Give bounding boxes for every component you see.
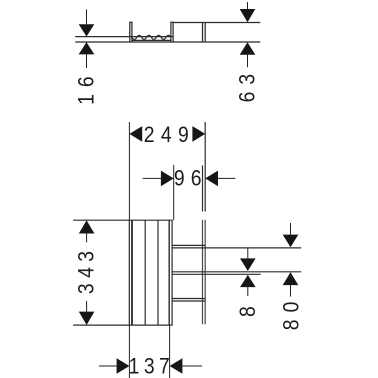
svg-text:63: 63 (236, 67, 260, 103)
svg-text:249: 249 (144, 123, 195, 147)
dimension 63: leader lines (247, 2, 249, 67)
arrowheads (129, 126, 205, 142)
arrowheads (161, 171, 218, 187)
arrowheads (240, 258, 256, 287)
dimension 343: leader lines (86, 233, 88, 311)
top view: mounting plate top edge (75, 36, 173, 38)
svg-text:16: 16 (75, 69, 99, 105)
svg-text:8: 8 (236, 306, 260, 317)
top view: box right edge double line (203, 23, 206, 43)
svg-text:80: 80 (279, 295, 303, 331)
top view: box top line (173, 22, 260, 24)
front view: rung 2 (172, 271, 301, 273)
top view: mounting plate bottom edge (75, 41, 260, 43)
front view: panel top line with 343 extension (73, 219, 172, 221)
arrowheads (283, 235, 299, 286)
dimension 249: leader lines (128, 122, 130, 220)
top view: tray left wall (130, 22, 132, 42)
front view: panel bottom line with 343 extension (73, 324, 172, 326)
svg-text:137: 137 (129, 354, 175, 378)
dimension 80: leader lines (290, 223, 292, 297)
front view: holder bar (203, 220, 206, 324)
top view: tray floor line (132, 39, 171, 41)
arrowheads (240, 9, 256, 55)
svg-text:96: 96 (174, 166, 208, 190)
front view: rung 1 (172, 244, 205, 246)
front view: rung 3 (172, 299, 205, 302)
arrowheads (117, 358, 183, 374)
top view: tray wavy base profile (132, 35, 171, 39)
dimension 137: leader lines (99, 325, 202, 378)
front view: holder bar upper extension lines (204, 122, 206, 212)
arrowheads (79, 24, 95, 54)
top view: tray right wall (171, 22, 173, 42)
front view: panel vertical lines (128, 220, 130, 325)
dimension 96: leader lines (143, 165, 236, 220)
dimension 8: leader lines (247, 248, 249, 296)
arrowheads (79, 220, 95, 325)
svg-text:343: 343 (74, 245, 98, 294)
dimension 16: leader lines (86, 10, 88, 69)
